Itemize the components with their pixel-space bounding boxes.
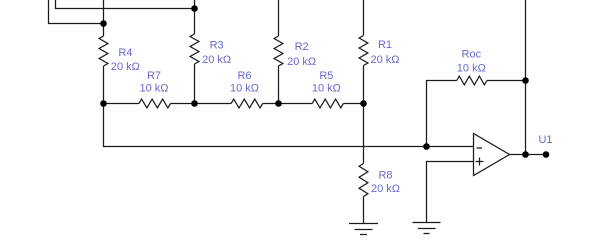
- svg-text:R3: R3: [210, 40, 224, 52]
- svg-text:R6: R6: [237, 70, 251, 82]
- svg-text:20 kΩ: 20 kΩ: [287, 56, 316, 68]
- svg-text:20 kΩ: 20 kΩ: [371, 183, 400, 195]
- svg-text:R2: R2: [295, 41, 309, 53]
- svg-text:10 kΩ: 10 kΩ: [312, 82, 341, 94]
- svg-text:20 kΩ: 20 kΩ: [370, 54, 399, 66]
- svg-text:20 kΩ: 20 kΩ: [202, 54, 231, 66]
- svg-text:10 kΩ: 10 kΩ: [139, 82, 168, 94]
- svg-text:R1: R1: [378, 39, 392, 51]
- svg-text:R8: R8: [378, 170, 392, 182]
- svg-text:10 kΩ: 10 kΩ: [230, 82, 259, 94]
- svg-text:R4: R4: [118, 47, 132, 59]
- svg-text:R5: R5: [319, 70, 333, 82]
- svg-text:20 kΩ: 20 kΩ: [111, 61, 140, 73]
- svg-text:R7: R7: [147, 70, 161, 82]
- svg-text:U1: U1: [538, 134, 552, 146]
- svg-text:Roc: Roc: [462, 49, 482, 61]
- svg-text:10 kΩ: 10 kΩ: [457, 63, 486, 75]
